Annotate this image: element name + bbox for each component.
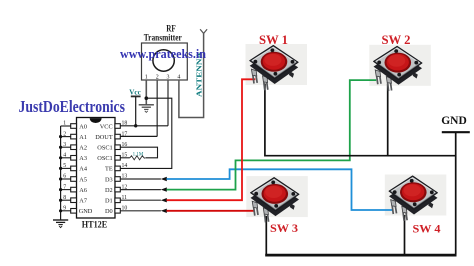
svg-text:SW 3: SW 3 [270, 221, 298, 235]
wire D1 to SW1 (red) [167, 79, 256, 200]
svg-text:9: 9 [63, 206, 66, 212]
svg-text:A2: A2 [79, 145, 87, 152]
svg-text:OSC1: OSC1 [97, 145, 112, 152]
D3..D0 stubs [120, 179, 161, 211]
svg-text:6: 6 [63, 174, 66, 180]
svg-text:JustDoElectronics: JustDoElectronics [19, 97, 126, 116]
wire pin3 stub [61, 146, 71, 148]
switch SW3 [250, 178, 299, 223]
switch SW2 [374, 46, 423, 91]
pin 14 box [115, 166, 120, 171]
pin 4 box [71, 156, 77, 161]
wire pin8 stub [61, 199, 71, 201]
svg-text:D3: D3 [105, 176, 113, 183]
svg-text:3: 3 [63, 142, 66, 148]
wire RF pin1 to ground [145, 80, 147, 104]
wire TE to GND branch [120, 98, 172, 168]
svg-text:4: 4 [177, 75, 180, 81]
svg-text:8: 8 [63, 195, 66, 201]
wire SW4 black down [404, 215, 406, 255]
ground (RF) [139, 105, 154, 113]
antenna symbol [200, 29, 207, 33]
wire pin6 stub [61, 178, 71, 180]
pin15 stub [120, 157, 130, 159]
pin 6 box [71, 177, 77, 182]
svg-text:A3: A3 [79, 155, 87, 162]
junction dot GND branch [145, 96, 149, 100]
svg-text:VCC: VCC [100, 123, 113, 130]
right pin numbers [122, 121, 128, 212]
wire D3 stub [120, 178, 161, 180]
junction dot Vcc rail [134, 124, 137, 127]
svg-text:GND: GND [441, 115, 467, 127]
pin 17 box [115, 134, 120, 139]
left pin stubs to bus [61, 126, 71, 211]
svg-text:www.prateeks.in: www.prateeks.in [120, 47, 206, 61]
svg-text:A1: A1 [79, 134, 87, 141]
wire D0 stub [120, 210, 161, 212]
svg-text:TE: TE [105, 166, 113, 173]
SW2 mounting panel [369, 45, 431, 86]
resistor R1 1.1M (zigzag) [130, 156, 146, 160]
wire bottom gnd bus [265, 254, 456, 257]
wire D3 to SW4 (blue) [167, 169, 393, 210]
pin 11 box [115, 198, 120, 203]
wire pin4 stub [61, 157, 71, 159]
pin 3 box [71, 145, 77, 150]
svg-text:1: 1 [63, 121, 66, 127]
svg-text:HT12E: HT12E [82, 220, 108, 230]
ground (IC address bus) [53, 220, 68, 228]
oscillator loop pin16 [120, 147, 157, 158]
svg-text:D0: D0 [105, 208, 113, 215]
svg-text:D2: D2 [105, 187, 113, 194]
arrowheads on D wires [161, 177, 167, 213]
svg-text:1.1M: 1.1M [133, 152, 144, 157]
svg-text:Vcc: Vcc [129, 88, 141, 97]
left pins group [71, 124, 77, 213]
svg-text:SW 1: SW 1 [259, 33, 288, 47]
wire RF pin2 (data) down to DOUT rail [156, 80, 158, 136]
wire DOUT stub (pin17) [120, 135, 157, 137]
wire SW1 black to gnd rail [265, 84, 456, 156]
SW4 mounting panel [385, 175, 447, 216]
svg-text:2: 2 [63, 131, 66, 137]
svg-text:GND: GND [79, 208, 93, 215]
left pin numbers [63, 121, 66, 212]
svg-text:18: 18 [122, 121, 128, 127]
SW3 mounting panel [246, 176, 307, 217]
wire GND vertical [455, 132, 457, 254]
wire pin7 stub [61, 189, 71, 191]
switch SW1 [250, 45, 299, 90]
pin 7 box [71, 187, 77, 192]
svg-text:A0: A0 [79, 123, 87, 130]
wire SW3 black down [265, 216, 267, 255]
svg-text:3: 3 [167, 75, 170, 81]
IC body U1 [77, 118, 116, 219]
wire VCC rail (pin18 stub) [120, 125, 168, 127]
svg-text:7: 7 [63, 184, 66, 190]
SW1 mounting panel [246, 44, 308, 85]
pin 10 box [115, 209, 120, 214]
SAW resonator circle [153, 50, 174, 71]
wire address bus (left) [60, 126, 62, 220]
wire RF pin3 (vcc) down to VCC rail [167, 80, 169, 126]
svg-text:Transmitter: Transmitter [144, 32, 182, 42]
svg-text:2: 2 [156, 75, 159, 81]
pin 16 box [115, 145, 120, 150]
junction dots on bus [59, 135, 62, 212]
pin 2 box [71, 134, 77, 139]
GND terminal bar [442, 131, 470, 133]
svg-text:5: 5 [63, 163, 66, 169]
wire SW2 black down [387, 84, 389, 156]
pin 5 box [71, 166, 77, 171]
wire pin9 stub [61, 210, 71, 212]
svg-text:SW 2: SW 2 [382, 33, 411, 47]
svg-text:1: 1 [145, 75, 148, 81]
wire RF pin4 to antenna [179, 33, 204, 117]
pin 12 box [115, 187, 120, 192]
pin 13 box [115, 177, 120, 182]
wire D1 stub [120, 199, 161, 201]
svg-text:D1: D1 [105, 198, 113, 205]
svg-text:4: 4 [63, 153, 66, 159]
svg-text:OSC1: OSC1 [97, 155, 112, 162]
IC pin name labels left [79, 123, 93, 215]
svg-text:A6: A6 [79, 187, 87, 194]
RF box pin numbers [145, 75, 181, 81]
svg-text:A7: A7 [79, 198, 87, 205]
svg-text:17: 17 [122, 131, 128, 137]
wire D2 to SW2 (green) [167, 80, 377, 190]
right pins group [115, 124, 120, 213]
svg-text:A5: A5 [79, 176, 87, 183]
svg-text:A4: A4 [79, 166, 88, 173]
wire pin1 stub [61, 125, 71, 127]
wire pin5 stub [61, 167, 71, 169]
IC notch [90, 118, 102, 123]
RF transmitter box [142, 43, 188, 80]
wire pin2 stub [61, 136, 71, 138]
switch SW4 [389, 176, 438, 221]
pin 1 box [71, 124, 77, 129]
svg-text:SW 4: SW 4 [413, 222, 441, 236]
svg-text:DOUT: DOUT [95, 134, 113, 141]
wire D2 stub [120, 189, 161, 191]
IC pin name labels right [95, 123, 113, 215]
wire D0 to SW3 (dark red) [167, 210, 255, 212]
pin 18 box [115, 124, 120, 129]
pin 8 box [71, 198, 77, 203]
pin 9 box [71, 209, 77, 214]
pin 15 box [115, 156, 120, 161]
